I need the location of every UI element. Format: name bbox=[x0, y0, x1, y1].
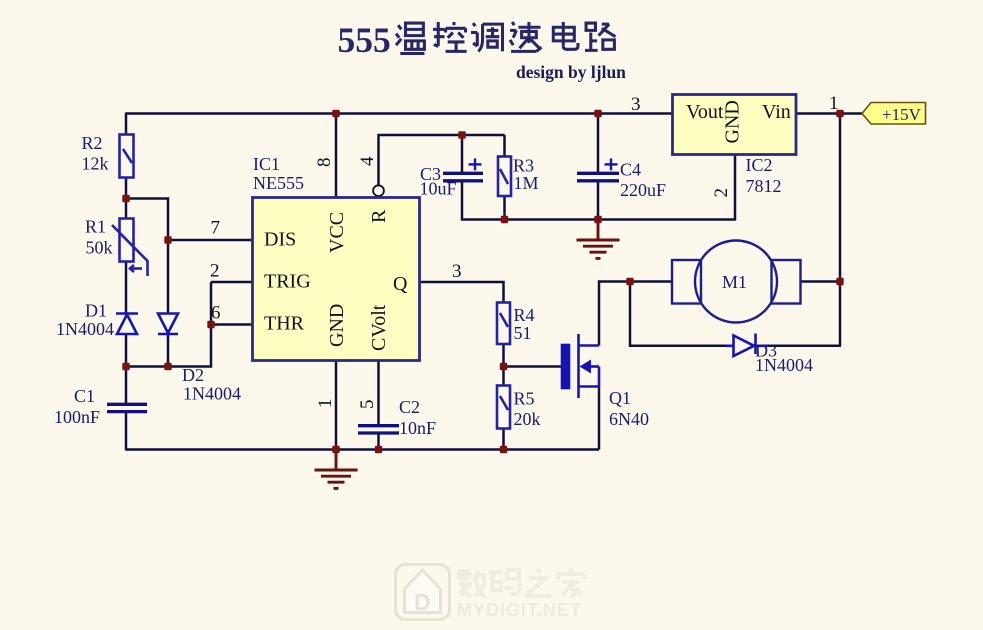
wire left branch verticals bbox=[125, 113, 128, 451]
svg-text:6: 6 bbox=[211, 303, 221, 324]
IC1 pin name VCC bbox=[326, 212, 348, 253]
C2 labels bbox=[399, 397, 436, 438]
svg-text:Vout: Vout bbox=[686, 101, 724, 123]
title 555 bbox=[338, 20, 391, 60]
pin number 8 bbox=[314, 158, 335, 168]
capacitor C2 bbox=[358, 426, 399, 433]
power flag +15V bbox=[862, 103, 926, 125]
watermark char jia bbox=[558, 568, 584, 598]
svg-text:10uF: 10uF bbox=[420, 179, 457, 199]
C1 labels bbox=[54, 386, 100, 427]
svg-text:C1: C1 bbox=[74, 386, 95, 406]
diode D1 bbox=[116, 314, 138, 335]
capacitor C4 polarized bbox=[577, 173, 619, 181]
svg-text:50k: 50k bbox=[86, 238, 113, 258]
D2 labels bbox=[182, 365, 241, 404]
ground near C4 bbox=[577, 220, 620, 259]
title glyph dian bbox=[553, 22, 578, 49]
junction motor left / D3 branch bbox=[626, 278, 633, 285]
R5 labels bbox=[514, 389, 541, 430]
M1 label bbox=[722, 272, 747, 292]
svg-text:D2: D2 bbox=[182, 365, 204, 385]
svg-text:VCC: VCC bbox=[326, 212, 348, 253]
svg-text:Q1: Q1 bbox=[609, 388, 631, 408]
svg-text:3: 3 bbox=[452, 261, 462, 282]
svg-text:1: 1 bbox=[315, 399, 336, 409]
svg-text:CVolt: CVolt bbox=[368, 304, 390, 351]
svg-text:1N4004: 1N4004 bbox=[56, 319, 114, 339]
IC1 pin name CVolt bbox=[368, 304, 390, 351]
IC1 pin name DIS bbox=[264, 229, 296, 251]
svg-text:R5: R5 bbox=[514, 389, 535, 409]
pin number 2 ic2 bbox=[711, 188, 732, 198]
wire node branch to DIS bbox=[126, 199, 253, 367]
junction R4-R5 gate node bbox=[500, 363, 507, 370]
IC1 pin name TRIG bbox=[264, 271, 311, 293]
junction D1-C1 node bbox=[122, 363, 129, 370]
pin number 1 vin bbox=[829, 93, 839, 114]
wire drain up and motor left bbox=[599, 282, 672, 346]
wire IC2 gnd pin2 bbox=[598, 155, 735, 220]
IC1 pin name R bbox=[368, 209, 390, 223]
wire pin4 R with bubble bbox=[379, 135, 505, 185]
svg-text:2: 2 bbox=[711, 188, 732, 198]
svg-text:220uF: 220uF bbox=[620, 180, 666, 200]
Q1 labels bbox=[609, 388, 649, 429]
junction VCC pin8 on +12V rail bbox=[332, 110, 339, 117]
subtitle design by ljlun bbox=[516, 62, 626, 82]
svg-text:R: R bbox=[368, 209, 390, 223]
resistor R2 bbox=[120, 135, 134, 178]
svg-text:IC1: IC1 bbox=[253, 154, 280, 174]
IC1 pin name GND bbox=[326, 304, 348, 347]
thermistor R1 bbox=[112, 219, 148, 277]
watermark char shu bbox=[457, 569, 486, 597]
wire R4-R5 node to gate bbox=[504, 344, 563, 451]
svg-text:IC2: IC2 bbox=[746, 155, 773, 175]
svg-text:6N40: 6N40 bbox=[609, 409, 649, 429]
junction R3 bottom node bbox=[501, 216, 508, 223]
junction DIS pin7 node bbox=[164, 236, 171, 243]
motor M1 right terminal box bbox=[772, 260, 801, 304]
junction CVolt C2 on ground rail bbox=[375, 446, 382, 453]
svg-text:51: 51 bbox=[514, 323, 532, 343]
junction +15V node bbox=[836, 110, 843, 117]
wire C4 verticals bbox=[597, 114, 600, 220]
svg-text:1M: 1M bbox=[514, 173, 539, 193]
wire motor bypass to D3 bbox=[630, 282, 841, 346]
svg-text:design by ljlun: design by ljlun bbox=[516, 62, 626, 82]
IC2 designator bbox=[746, 155, 773, 175]
svg-text:C4: C4 bbox=[620, 160, 641, 180]
R1 labels bbox=[85, 217, 113, 258]
junction C3 top node bbox=[458, 131, 465, 138]
wire top rail bbox=[126, 112, 672, 115]
pin number 6 bbox=[211, 303, 221, 324]
resistor R5 bbox=[497, 386, 510, 429]
title glyph su bbox=[510, 22, 542, 51]
svg-text:555: 555 bbox=[338, 20, 391, 60]
junction C4-ground node bbox=[594, 216, 601, 223]
R3 labels bbox=[513, 156, 539, 194]
pin4 inversion bubble bbox=[373, 185, 384, 196]
IC1 pin name THR bbox=[264, 313, 305, 335]
svg-text:4: 4 bbox=[357, 156, 378, 166]
wire bottom rail bbox=[126, 361, 599, 451]
svg-text:D: D bbox=[414, 589, 431, 615]
IC1 NE555 body bbox=[253, 198, 420, 361]
wire pin8 VCC bbox=[335, 114, 338, 199]
watermark text MYDIGIT.NET bbox=[457, 600, 582, 620]
junction GND pin1 on ground rail bbox=[332, 446, 339, 453]
resistor R3 bbox=[498, 157, 511, 197]
capacitor C1 bbox=[107, 404, 147, 411]
svg-text:100nF: 100nF bbox=[54, 407, 100, 427]
capacitor C3 polarized bbox=[443, 173, 483, 181]
svg-text:7: 7 bbox=[211, 218, 221, 239]
svg-text:7812: 7812 bbox=[746, 176, 782, 196]
svg-text:R1: R1 bbox=[85, 217, 106, 237]
wire right drop to D3 bbox=[839, 114, 842, 346]
diode D2 bbox=[158, 314, 178, 335]
junction THR pin6 node bbox=[207, 321, 214, 328]
pin number 7 bbox=[211, 218, 221, 239]
motor M1 left terminal box bbox=[672, 260, 701, 304]
title glyph lu bbox=[585, 23, 615, 50]
IC2 pin name Vin bbox=[762, 101, 791, 123]
title glyph diao bbox=[471, 23, 503, 51]
svg-text:2: 2 bbox=[210, 261, 220, 282]
svg-text:R4: R4 bbox=[514, 305, 535, 325]
svg-text:MYDIGIT.NET: MYDIGIT.NET bbox=[457, 600, 582, 620]
watermark char ma bbox=[489, 570, 519, 594]
junction D2 bottom node bbox=[164, 363, 171, 370]
D3 labels bbox=[755, 341, 813, 376]
svg-text:3: 3 bbox=[631, 94, 641, 115]
diode D3 bbox=[726, 334, 768, 357]
svg-text:C2: C2 bbox=[399, 397, 420, 417]
wire C3 drop bbox=[462, 135, 505, 220]
IC1 pin name Q bbox=[393, 273, 408, 295]
resistor R4 bbox=[497, 303, 510, 345]
junction R2-R1 divider node bbox=[122, 195, 129, 202]
svg-text:8: 8 bbox=[314, 158, 335, 168]
svg-text:M1: M1 bbox=[722, 272, 747, 292]
IC1 value NE555 bbox=[253, 173, 304, 193]
IC2 value 7812 bbox=[746, 176, 782, 196]
svg-text:1N4004: 1N4004 bbox=[183, 384, 241, 404]
watermark logo D bbox=[414, 589, 431, 615]
svg-text:GND: GND bbox=[326, 304, 348, 347]
wire R3 verticals bbox=[505, 135, 599, 220]
ground below IC1 bbox=[315, 450, 358, 489]
svg-text:12k: 12k bbox=[82, 154, 109, 174]
svg-text:R2: R2 bbox=[82, 133, 103, 153]
watermark logo box bbox=[396, 565, 450, 620]
pin number 3 vout bbox=[631, 94, 641, 115]
svg-text:DIS: DIS bbox=[264, 229, 296, 251]
IC2 pin name Vout bbox=[686, 101, 724, 123]
C4 plus sign bbox=[605, 158, 618, 170]
svg-text:TRIG: TRIG bbox=[264, 271, 311, 293]
svg-text:1N4004: 1N4004 bbox=[755, 355, 813, 375]
svg-text:GND: GND bbox=[722, 100, 744, 143]
wire bottom node to THR/TRIG bbox=[126, 282, 253, 367]
pin number 1 gnd bbox=[315, 399, 336, 409]
C3 labels bbox=[420, 164, 457, 199]
D1 labels bbox=[56, 301, 114, 340]
junction R5 bottom on ground rail bbox=[500, 446, 507, 453]
wire motor right bbox=[800, 280, 840, 283]
svg-text:10nF: 10nF bbox=[399, 418, 436, 438]
R2 labels bbox=[82, 133, 109, 174]
pin number 2 bbox=[210, 261, 220, 282]
junction motor right / D3 return bbox=[836, 278, 843, 285]
mosfet Q1 bbox=[562, 334, 599, 398]
IC1 designator bbox=[253, 154, 280, 174]
svg-text:NE555: NE555 bbox=[253, 173, 304, 193]
R4 labels bbox=[514, 305, 535, 343]
pin number 4 bbox=[357, 156, 378, 166]
junction C4 top on +12V rail bbox=[594, 110, 601, 117]
title glyph wen bbox=[396, 23, 424, 53]
svg-text:D1: D1 bbox=[85, 301, 107, 321]
IC2 pin name GND bbox=[722, 100, 744, 143]
motor M1 circle bbox=[695, 241, 777, 323]
svg-text:5: 5 bbox=[357, 400, 378, 410]
IC2 7812 body bbox=[673, 95, 797, 155]
svg-text:+15V: +15V bbox=[882, 105, 922, 124]
wire Q output pin3 bbox=[420, 282, 504, 303]
svg-text:20k: 20k bbox=[514, 409, 541, 429]
wire Vin to flag bbox=[797, 112, 862, 115]
C4 labels bbox=[620, 160, 666, 201]
pin number 5 bbox=[357, 400, 378, 410]
C3 plus sign bbox=[469, 158, 482, 170]
watermark char zhi bbox=[525, 569, 551, 596]
svg-text:Q: Q bbox=[393, 273, 408, 295]
svg-text:Vin: Vin bbox=[762, 101, 791, 123]
svg-text:THR: THR bbox=[264, 313, 305, 335]
title glyph kong bbox=[433, 22, 467, 51]
pin number 3 out bbox=[452, 261, 462, 282]
